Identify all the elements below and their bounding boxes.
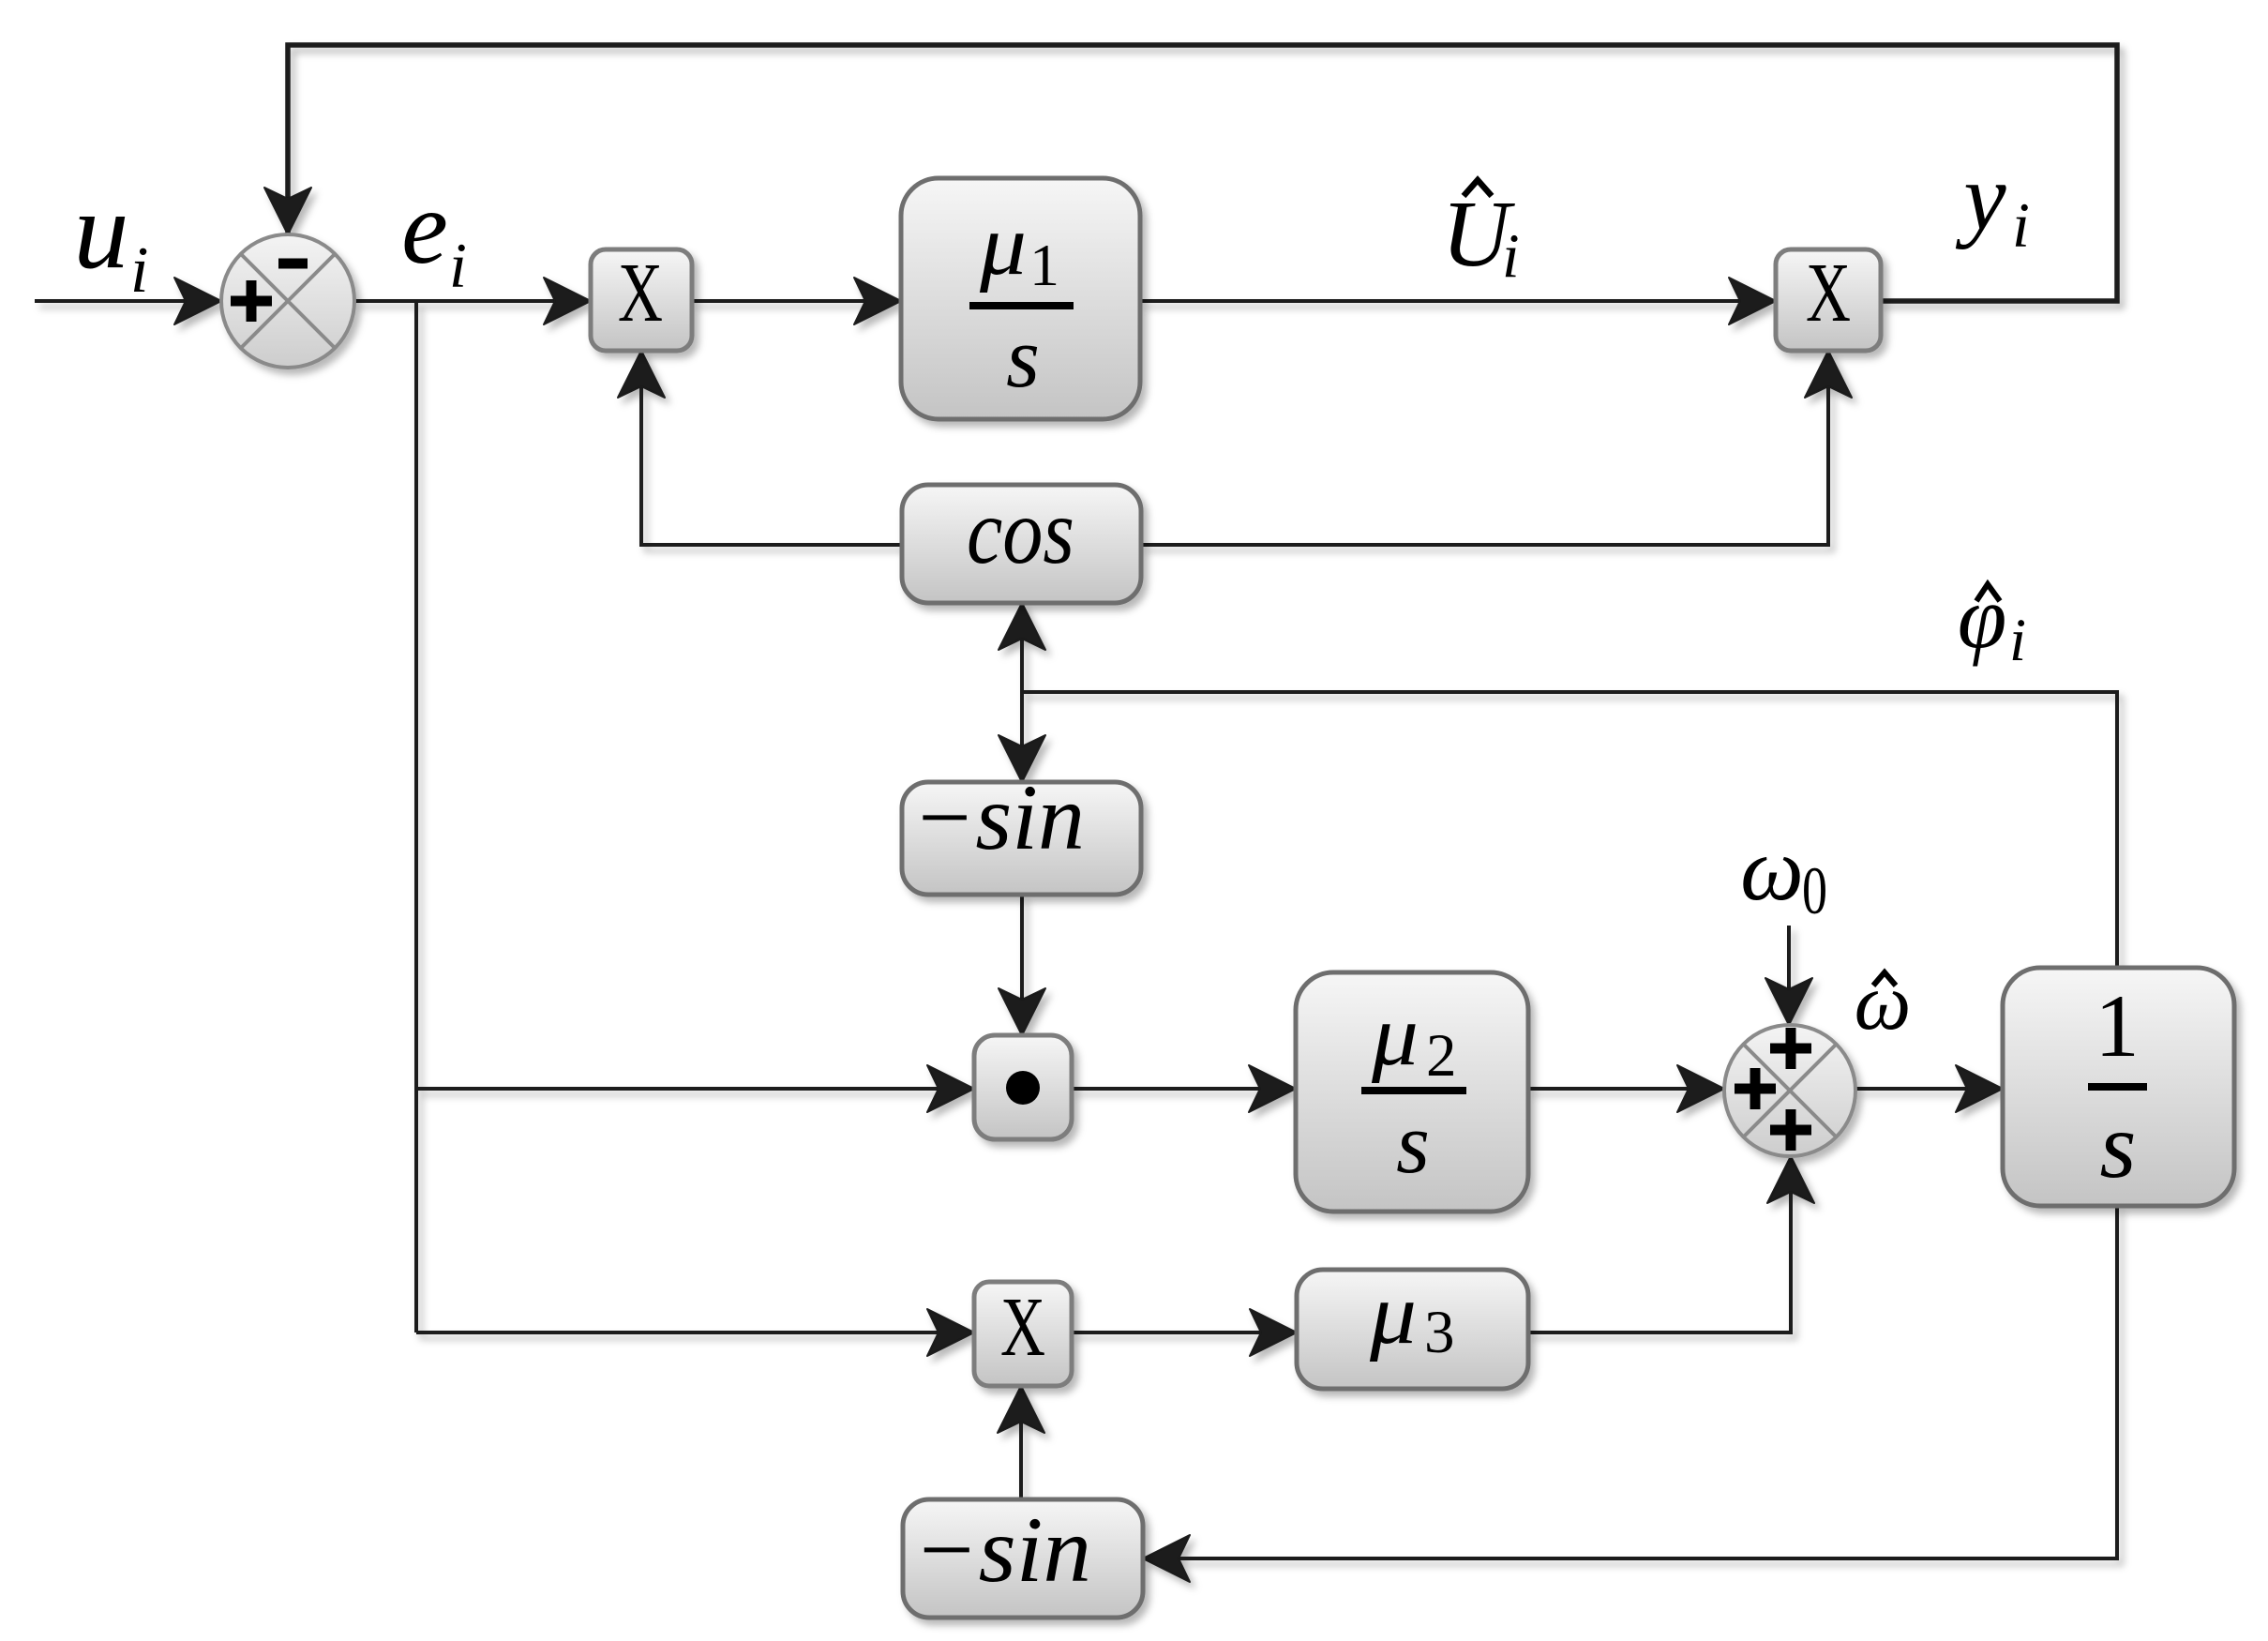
text dot (1006, 1071, 1040, 1105)
label y_i (1955, 144, 2030, 261)
svg-text:3: 3 (1424, 1299, 1455, 1366)
svg-text:ω: ω (1855, 956, 1912, 1046)
svg-text:e: e (401, 170, 448, 286)
multiplier X2 (1776, 249, 1881, 351)
text mu1/s (969, 197, 1074, 405)
svg-text:cos: cos (967, 479, 1074, 583)
text mu3 (1369, 1266, 1455, 1366)
block -sin upper (902, 782, 1141, 895)
svg-text:0: 0 (1802, 853, 1827, 928)
wire e_i vertical branch (414, 301, 418, 1332)
wire bottom -sin to X3 (1019, 1386, 1023, 1499)
wire mu2/s to sum2 (1528, 1087, 1724, 1091)
wire X3 to mu3 (1072, 1331, 1297, 1334)
svg-text:s: s (1006, 309, 1040, 405)
text 1/s (2088, 976, 2147, 1197)
multiplier dot (974, 1035, 1072, 1139)
wire y_i feedback top loop (288, 45, 2117, 301)
multiplier X1 (591, 249, 692, 351)
svg-text:i: i (2012, 189, 2030, 261)
wire e_i to dot multiplier (416, 1087, 974, 1091)
text mu2/s (1361, 987, 1466, 1191)
svg-text:μ: μ (979, 197, 1027, 294)
svg-text:y: y (1955, 144, 2006, 250)
wire X1 to mu1/s (692, 299, 901, 303)
svg-text:s: s (2100, 1093, 2137, 1197)
wire -sin to dot multiplier (1020, 895, 1024, 1035)
wire omega0 input (1787, 926, 1791, 1025)
svg-text:u: u (74, 169, 129, 292)
svg-text:i: i (130, 234, 148, 307)
wire phi junction to -sin (1020, 692, 1024, 782)
wire 1/s bottom to -sin (1143, 1206, 2117, 1558)
wire cos to X1 (641, 351, 902, 545)
block -sin bottom (903, 1499, 1143, 1618)
svg-text:φ: φ (1958, 567, 2007, 667)
block mu1/s (901, 178, 1140, 419)
block 1/s (2003, 968, 2234, 1206)
label e_i (401, 170, 467, 301)
wire mu3 to sum2 (1528, 1156, 1791, 1332)
label u_i (74, 169, 149, 307)
wire dot to mu2/s (1072, 1087, 1296, 1091)
svg-text:1: 1 (1029, 232, 1059, 298)
block mu3 (1297, 1270, 1528, 1389)
svg-text:i: i (2009, 607, 2026, 674)
svg-text:−sin: −sin (913, 1498, 1091, 1602)
label U_i hat (1442, 180, 1520, 291)
svg-text:ω: ω (1740, 819, 1804, 919)
svg-text:i: i (1502, 221, 1520, 291)
svg-text:2: 2 (1426, 1022, 1457, 1090)
summing junction sum1 (221, 234, 354, 368)
svg-text:−sin: −sin (912, 765, 1085, 869)
wire mu1/s to X2 (1140, 299, 1776, 303)
svg-text:s: s (1396, 1095, 1430, 1191)
summing junction sum2 (1724, 1025, 1855, 1156)
wire u_i input (35, 299, 221, 303)
svg-text:μ: μ (1369, 1266, 1417, 1362)
wire cos to X2 (1141, 351, 1828, 545)
label omega0 (1740, 819, 1827, 928)
svg-text:X: X (618, 247, 663, 339)
svg-text:X: X (1000, 1281, 1045, 1374)
wire phi_i from 1/s top (1022, 692, 2117, 968)
svg-text:X: X (1806, 247, 1851, 339)
wire phi junction to cos (1020, 603, 1024, 692)
wire e_i to X3 (416, 1331, 974, 1334)
block cos (902, 485, 1141, 603)
svg-text:1: 1 (2095, 976, 2140, 1076)
wire sum1 to X1 (354, 299, 591, 303)
svg-text:μ: μ (1371, 987, 1419, 1084)
label phi_i hat (1958, 567, 2026, 674)
svg-text:i: i (449, 230, 467, 301)
multiplier X3 (974, 1282, 1072, 1386)
wire sum2 to 1/s (1855, 1087, 2003, 1091)
block mu2/s (1296, 972, 1528, 1212)
label omega hat (1855, 956, 1912, 1046)
